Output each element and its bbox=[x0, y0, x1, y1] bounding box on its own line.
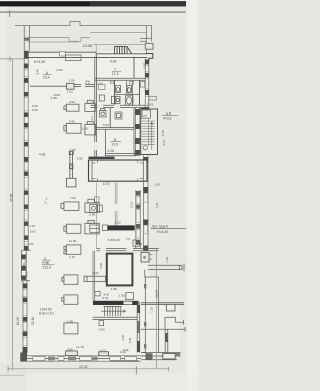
right wall window boxes mid bbox=[144, 163, 148, 234]
room3 label fraction bbox=[42, 261, 54, 270]
tick cross on rule bbox=[8, 10, 11, 17]
landing fixture bbox=[143, 146, 147, 150]
svg-text:4.43: 4.43 bbox=[161, 130, 165, 136]
stairs arrow bbox=[101, 310, 126, 313]
partition segment right 2 bbox=[85, 84, 95, 86]
svg-text:1914.50: 1914.50 bbox=[40, 307, 52, 311]
svg-text:11: 11 bbox=[113, 138, 117, 142]
door gap corridor bbox=[140, 92, 145, 100]
right exterior wall mid run bbox=[144, 155, 149, 250]
south wall bump 2 bbox=[99, 352, 109, 356]
svg-text:7: 7 bbox=[114, 67, 116, 71]
extension inner wall bbox=[165, 329, 168, 352]
center stairs comb bbox=[104, 306, 122, 316]
hall furniture f4 hat bbox=[85, 122, 96, 135]
svg-text:10.16: 10.16 bbox=[31, 317, 35, 325]
svg-text:0.90: 0.90 bbox=[103, 123, 109, 127]
svg-text:2.10: 2.10 bbox=[115, 220, 121, 224]
room11 right wall bbox=[133, 108, 135, 156]
hall furniture f2 hat bbox=[85, 100, 95, 111]
bay window box bbox=[22, 260, 25, 265]
svg-text:13.20: 13.20 bbox=[16, 317, 20, 325]
stage inner right line bbox=[142, 160, 144, 181]
wall between room11 and stairwell bbox=[135, 108, 140, 156]
toilet cluster B bbox=[115, 112, 122, 119]
hall furniture f1 bbox=[64, 104, 79, 111]
bottom dim tick right bbox=[167, 367, 170, 371]
top wall right section (double) bbox=[96, 52, 147, 57]
hall furniture f9 bbox=[64, 245, 81, 254]
wall under wc block bbox=[91, 105, 146, 107]
top wall left section (double) bbox=[24, 52, 96, 57]
stage inner left line bbox=[91, 160, 93, 181]
bottom dimension line bbox=[8, 368, 168, 370]
small fixtures left of cold room bbox=[95, 291, 100, 296]
partition segment right 1 bbox=[74, 84, 81, 86]
svg-text:8.70: 8.70 bbox=[103, 182, 110, 186]
wall above room 11 bbox=[96, 128, 135, 130]
left wall piers upper run bbox=[24, 64, 29, 251]
svg-text:2.01: 2.01 bbox=[130, 202, 134, 208]
small vent box bbox=[133, 240, 139, 246]
wc mid partition bbox=[114, 93, 139, 95]
svg-text:5.95: 5.95 bbox=[69, 120, 75, 124]
svg-text:0.85: 0.85 bbox=[70, 148, 76, 152]
north boundary line upper bbox=[15, 22, 152, 26]
svg-text:0.49: 0.49 bbox=[120, 350, 126, 354]
wall under center stairs bbox=[93, 317, 138, 319]
left exterior wall lower run bbox=[23, 281, 27, 353]
left edge lighter strip bbox=[0, 0, 6, 391]
NE corner jog bbox=[146, 54, 153, 63]
left wall lower window boxes bbox=[23, 289, 27, 345]
svg-text:17.3: 17.3 bbox=[112, 72, 119, 76]
room11 label fraction bbox=[110, 138, 121, 147]
stairwell west wall piers bbox=[135, 109, 140, 156]
porch ramp east bbox=[148, 264, 184, 272]
kitchen sink fixtures bbox=[90, 204, 103, 212]
extension bottom pier box bbox=[163, 353, 175, 359]
right wall piers upper bbox=[145, 60, 149, 113]
thick counter bar bbox=[108, 225, 135, 230]
south wall corner block bbox=[20, 352, 27, 361]
top wall pier box bbox=[60, 52, 66, 56]
outside steps lower right bbox=[141, 317, 185, 331]
gray rule line top bbox=[0, 11, 186, 12]
svg-text:4+3,5: 4+3,5 bbox=[163, 117, 172, 121]
faint lower-left margin line bbox=[0, 374, 24, 376]
svg-text:1.95: 1.95 bbox=[119, 293, 125, 297]
svg-text:Н+Б+1.10: Н+Б+1.10 bbox=[39, 312, 54, 316]
black scan band top bbox=[0, 1, 186, 6]
wc partition 1 bbox=[113, 80, 115, 105]
bottom dim tick mid bbox=[135, 366, 138, 374]
right wall piers mid bbox=[143, 157, 148, 250]
svg-text:23.4: 23.4 bbox=[43, 75, 50, 79]
hall furniture f12 bbox=[64, 323, 78, 334]
extension wall pier bbox=[165, 333, 168, 342]
flue box with symbol bbox=[141, 252, 152, 262]
stair door label fraction bbox=[162, 112, 178, 121]
jamb mark above bbox=[86, 81, 89, 84]
hall furniture f11 bbox=[62, 295, 78, 304]
svg-text:13.6: 13.6 bbox=[111, 143, 118, 147]
door jamb box bbox=[67, 83, 74, 89]
NE staircase box bbox=[141, 109, 158, 155]
hall furniture f6 hat bbox=[85, 199, 99, 212]
hall-rooms divider wall bbox=[95, 57, 97, 158]
kitchen range fixture bbox=[90, 225, 99, 232]
svg-text:0.94: 0.94 bbox=[69, 100, 75, 104]
svg-text:1.45: 1.45 bbox=[67, 319, 73, 323]
wc partition 4 bbox=[139, 80, 141, 105]
stairwell top wall stub bbox=[141, 107, 147, 109]
storeroom west wall bbox=[93, 251, 95, 302]
white box left of bar bbox=[102, 225, 107, 230]
left wall piers lower run bbox=[23, 284, 28, 353]
svg-text:4.28: 4.28 bbox=[39, 152, 45, 156]
svg-text:244.8: 244.8 bbox=[42, 261, 50, 265]
svg-text:0.90: 0.90 bbox=[25, 271, 29, 277]
door jamb box above bar bbox=[126, 293, 134, 300]
right margin lighter strip bbox=[187, 0, 198, 391]
svg-text:0.4: 0.4 bbox=[90, 116, 94, 120]
lower-right outer wall line bbox=[158, 277, 160, 353]
facade connector line bbox=[95, 45, 97, 54]
svg-text:1.98: 1.98 bbox=[111, 287, 117, 291]
svg-text:д.8: д.8 bbox=[143, 113, 147, 117]
room11 left wall bbox=[105, 129, 107, 156]
corridor niche box bbox=[141, 82, 145, 88]
svg-text:1.15: 1.15 bbox=[69, 255, 75, 259]
kitchen east wall piers bbox=[136, 191, 141, 245]
wc partition 2 bbox=[126, 80, 128, 94]
building interior light fill bbox=[24, 51, 149, 362]
toilet cluster A bbox=[100, 108, 107, 117]
room11 bottom wall bbox=[105, 154, 136, 156]
svg-text:13.08: 13.08 bbox=[83, 44, 93, 48]
counter L-shape in hall bbox=[67, 151, 76, 187]
left wall window boxes bbox=[24, 70, 28, 245]
hall furniture f10 bbox=[62, 275, 78, 284]
wall end pier box bbox=[99, 321, 104, 326]
svg-text:В: В bbox=[44, 256, 46, 260]
tub fixture bbox=[125, 96, 133, 105]
thick wall stub left of stage bbox=[89, 157, 115, 159]
svg-text:-0.92: -0.92 bbox=[56, 68, 63, 72]
faint court line right bbox=[93, 44, 146, 46]
svg-text:4,40: 4,40 bbox=[110, 59, 117, 63]
pier box in bar bbox=[124, 302, 133, 305]
litera label block bbox=[151, 224, 186, 234]
svg-text:12.39: 12.39 bbox=[154, 290, 158, 298]
svg-text:Н=4.40: Н=4.40 bbox=[157, 230, 168, 234]
svg-text:3.40: 3.40 bbox=[36, 68, 40, 74]
south-center wall vertical bbox=[137, 302, 140, 353]
storeroom wall door gaps bbox=[100, 248, 106, 252]
basin fixtures row2 bbox=[112, 96, 121, 103]
top wall corner pier bbox=[24, 51, 29, 59]
svg-text:11.00: 11.00 bbox=[69, 239, 77, 243]
svg-text:4.00: 4.00 bbox=[93, 271, 99, 275]
bottom dim tick left bbox=[7, 367, 10, 372]
svg-text:0.79: 0.79 bbox=[102, 296, 108, 300]
svg-text:3.30: 3.30 bbox=[114, 238, 120, 242]
svg-text:0.: 0. bbox=[45, 200, 48, 204]
white sliver top bbox=[0, 0, 198, 1]
south wall dark fills bbox=[48, 357, 139, 362]
kitchen west faint wall bbox=[95, 181, 97, 249]
extension west wall piers bbox=[144, 284, 146, 348]
left wall bay (projecting) bbox=[22, 250, 31, 280]
svg-text:3.96: 3.96 bbox=[99, 263, 103, 269]
paper background bbox=[0, 0, 198, 391]
faint court line left bbox=[28, 41, 80, 43]
stage corner ticks bbox=[92, 160, 143, 181]
bottom-left corner shade bbox=[0, 363, 26, 391]
svg-text:1.02: 1.02 bbox=[29, 224, 35, 228]
hall furniture f7 bbox=[64, 224, 81, 233]
right wall window boxes upper bbox=[146, 65, 149, 105]
NE entry landing box bbox=[145, 43, 153, 49]
svg-text:4.28: 4.28 bbox=[108, 149, 114, 153]
right wall window sill mark bbox=[149, 96, 157, 100]
left exterior wall face lines (upper run) bbox=[24, 51, 28, 250]
svg-text:37.36: 37.36 bbox=[10, 193, 14, 202]
svg-text:3.35: 3.35 bbox=[70, 164, 74, 170]
wc partition 3 bbox=[132, 80, 134, 105]
divider door gap bbox=[94, 142, 97, 150]
svg-text:д.В: д.В bbox=[166, 112, 172, 116]
hall furniture f5 bbox=[61, 202, 79, 211]
svg-text:1.52: 1.52 bbox=[67, 89, 73, 93]
svg-text:1.00: 1.00 bbox=[154, 183, 160, 187]
hall furniture f3 bbox=[64, 123, 81, 133]
NW wall pier block bbox=[24, 38, 29, 41]
north boundary bump label area bbox=[28, 32, 147, 41]
room A label 23.4 bbox=[43, 71, 51, 80]
south wall pier boxes bbox=[33, 357, 137, 361]
svg-text:Ф: Ф bbox=[143, 255, 147, 260]
right exterior wall upper run bbox=[145, 58, 149, 112]
south-center wall piers bbox=[137, 305, 140, 313]
svg-text:0.68: 0.68 bbox=[32, 104, 38, 108]
svg-text:1.40: 1.40 bbox=[165, 257, 169, 263]
right vertical dimension line bbox=[156, 248, 158, 369]
svg-text:лит. под А: лит. под А bbox=[152, 224, 169, 228]
porch step L bbox=[145, 270, 159, 277]
svg-text:12.92: 12.92 bbox=[79, 365, 88, 369]
south wall join to extension bbox=[141, 353, 146, 360]
svg-text:H+4,50: H+4,50 bbox=[34, 60, 45, 64]
svg-text:0.63: 0.63 bbox=[30, 229, 36, 233]
right dim tick top bbox=[154, 247, 158, 250]
svg-text:0.99: 0.99 bbox=[99, 328, 105, 332]
storeroom top wall bbox=[97, 248, 159, 250]
extension west wall bbox=[144, 277, 146, 353]
wall under room7 bbox=[95, 78, 145, 80]
svg-text:1.93: 1.93 bbox=[147, 102, 153, 106]
svg-text:212.8: 212.8 bbox=[43, 266, 52, 270]
toilet fixture 2 bbox=[127, 86, 132, 93]
svg-text:3.20: 3.20 bbox=[121, 334, 125, 340]
svg-text:+1.76: +1.76 bbox=[76, 345, 84, 349]
right extension top wall bbox=[141, 303, 184, 305]
svg-text:Т.0: Т.0 bbox=[126, 237, 130, 241]
svg-text:1.91: 1.91 bbox=[155, 202, 159, 208]
bay piers bbox=[21, 255, 26, 260]
svg-text:0.45: 0.45 bbox=[32, 108, 38, 112]
bottom margin lighter bbox=[0, 374, 198, 391]
tiny cistern marks bbox=[110, 81, 113, 84]
notch under extension wall bbox=[166, 304, 175, 311]
svg-text:1.35: 1.35 bbox=[22, 263, 26, 269]
svg-text:0.90: 0.90 bbox=[77, 157, 83, 161]
sink cell1 bbox=[99, 95, 104, 101]
corridor wall mid bbox=[109, 108, 111, 128]
svg-text:3.01: 3.01 bbox=[162, 139, 166, 145]
stage platform outline bbox=[89, 160, 148, 181]
kitchen divider wall upper bbox=[115, 183, 117, 226]
main south wall band bbox=[20, 356, 146, 361]
room7 right wall bbox=[133, 57, 135, 79]
svg-text:1.10: 1.10 bbox=[150, 307, 154, 313]
stair arrow bbox=[151, 122, 153, 150]
kitchen east wall window boxes bbox=[136, 197, 140, 238]
pilaster niche under top wall bbox=[66, 55, 82, 61]
svg-text:2.05: 2.05 bbox=[69, 78, 75, 82]
partition wall room A bbox=[30, 85, 66, 87]
NE corner wall verticals bbox=[140, 26, 152, 54]
thick wall bar under cold room bbox=[93, 301, 139, 305]
entrance stair comb outside top wall bbox=[115, 47, 132, 54]
door gaps in wc wall bbox=[97, 105, 103, 109]
svg-text:0.96: 0.96 bbox=[89, 212, 95, 216]
svg-text:4.95: 4.95 bbox=[51, 96, 57, 100]
left vertical dimension line bbox=[12, 59, 14, 370]
svg-text:0.71: 0.71 bbox=[100, 348, 106, 352]
svg-text:5.30: 5.30 bbox=[108, 238, 114, 242]
south wall bump 1 bbox=[66, 351, 78, 356]
svg-text:0.52: 0.52 bbox=[28, 242, 34, 246]
toilet fixture 1 bbox=[116, 85, 121, 92]
svg-text:3.91: 3.91 bbox=[128, 337, 132, 343]
extension bottom dark fills bbox=[146, 353, 153, 359]
svg-text:2.80: 2.80 bbox=[142, 62, 146, 68]
kitchen east wall bbox=[136, 190, 141, 248]
wall counter bar bbox=[84, 276, 106, 281]
svg-text:7.00: 7.00 bbox=[70, 196, 76, 200]
NW corner wall verticals bbox=[24, 26, 29, 52]
cold room thick walls bbox=[107, 254, 133, 286]
boiler box cell1 bbox=[98, 85, 105, 90]
left dimension extension line top bbox=[0, 58, 25, 60]
hall furniture f8 hat bbox=[85, 220, 99, 234]
svg-text:0.80: 0.80 bbox=[67, 347, 73, 351]
left dimension tick top bbox=[9, 57, 12, 62]
extension bottom wall band bbox=[141, 353, 181, 360]
small bracket fixture below stage bbox=[95, 197, 99, 202]
